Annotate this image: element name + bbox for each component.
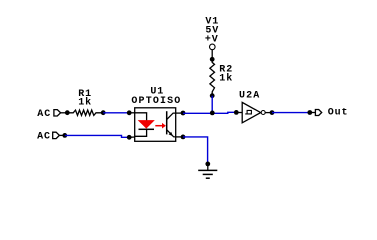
junction dot opto pin1 [127,110,132,115]
junction dot node A [210,111,215,116]
phototransistor base bar [166,111,168,134]
opto U1 pin 2 lead [129,136,135,138]
wire pin AC1 to node [61,112,68,114]
junction dot R1 left [65,110,70,115]
junction dot R1 right [101,110,106,115]
U2A output pin lead [266,112,273,114]
schmitt hysteresis symbol [245,110,251,114]
wire R2 to node (blue vertical) [211,96,213,113]
resistor R2 [210,59,215,95]
junction dot opto pin4 [181,111,186,116]
svg-text:OPTOISO: OPTOISO [131,96,181,107]
junction dot opto pin3 [181,135,186,140]
opto pin 3 lead (emitter out) [176,136,183,138]
wire pin AC2 to node [59,134,64,136]
wire R1 to opto pin 1 (blue) [103,112,129,114]
wire AC2 to opto pin 2 (blue, with jog) [65,135,129,137]
junction dot ground [205,162,210,167]
resistor R1 [67,110,103,115]
inversion bubble [261,111,265,115]
junction dot opto pin2 [127,135,132,140]
svg-text:U2A: U2A [239,90,260,101]
LED triangle (red) [139,121,154,128]
junction dot U2A input [234,110,239,115]
phototransistor emitter [167,130,176,137]
power terminal circle V1 [210,44,216,50]
wire collector node to U2A (blue) [183,112,236,113]
wire emitter to ground (blue) [183,137,208,164]
svg-text:AC: AC [37,131,51,142]
phototransistor collector [167,113,176,120]
port Out [310,108,349,119]
junction dot R2 top [210,57,215,62]
junction dot AC2 [62,133,67,138]
red light arrow [155,123,166,129]
port AC (bottom input) [37,131,59,142]
svg-text:AC: AC [37,109,51,120]
wire U2A to Out (blue) [272,112,310,114]
junction dot Out [307,110,312,115]
svg-text:1k: 1k [78,96,92,108]
inverter U2A triangle [242,102,261,122]
svg-text:Out: Out [328,108,349,119]
wire V1 to R2 [211,50,213,60]
port AC (top input) [37,109,60,120]
junction dot R2 bottom [210,93,215,98]
opto pin 4 lead (collector out) [176,112,183,114]
emitter arrowhead [169,132,173,136]
opto-isolator U1 box [135,108,176,142]
opto U1 pin 1 lead [129,112,135,114]
LED cathode bar [139,128,155,130]
junction dot U2A output [270,110,275,115]
ground [198,164,217,178]
U2A input pin lead [236,112,242,114]
svg-text:1k: 1k [219,72,233,84]
LED cathode wire [135,129,147,136]
LED anode wire [135,113,147,121]
